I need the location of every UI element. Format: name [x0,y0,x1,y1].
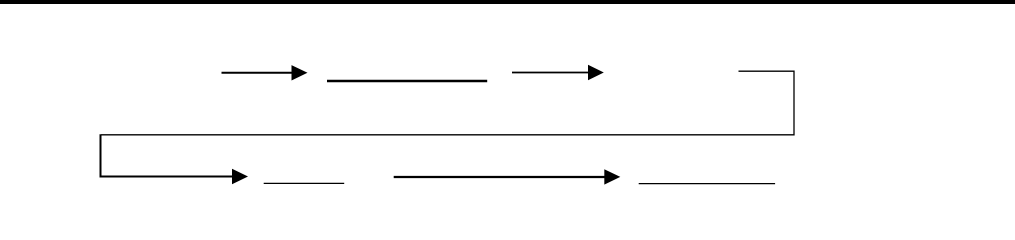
arrow 3 (bottom long) [394,169,621,184]
blank underline 3 (bottom right) [639,183,775,185]
blank underline 2 (bottom short) [264,182,345,184]
arrow 2 (middle row right) [512,65,604,80]
down-then-right arrow (bottom left) [101,134,249,184]
blank underline 1 (middle row) [327,80,487,82]
arrow 1 (middle row left) [222,65,308,80]
feedback connector (right elbow, down, long run left) [101,71,794,135]
top rule [0,0,1015,4]
